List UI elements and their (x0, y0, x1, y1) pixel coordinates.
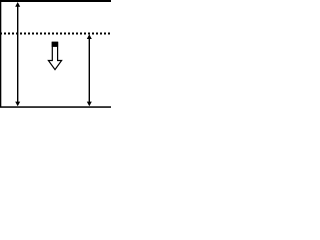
bottom ground line (0, 106, 111, 108)
background (0, 0, 111, 112)
right arrow top head (87, 34, 92, 39)
right dimension arrow shaft (88, 36, 90, 104)
hollow down arrow outline (48, 42, 61, 69)
top border wall (0, 0, 111, 2)
left border wall (0, 0, 1, 107)
left dimension arrow shaft (17, 4, 19, 104)
right arrow bottom head (87, 102, 92, 107)
hollow arrow filled top block (52, 42, 58, 47)
left arrow top head (15, 2, 20, 7)
left arrow bottom head (15, 102, 20, 107)
dotted datum line (0, 33, 111, 35)
